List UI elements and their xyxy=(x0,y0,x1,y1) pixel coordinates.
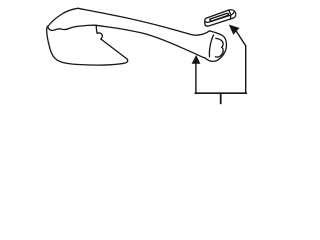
connector clip outer outline xyxy=(205,10,236,26)
arm bottom edge (line B) xyxy=(96,25,205,58)
arrow 1 head (points up at tube) xyxy=(192,55,201,64)
tube end inner edge xyxy=(209,35,213,57)
arrow 2 leader diagonal xyxy=(236,31,245,46)
bracket horizontal line xyxy=(195,92,246,94)
arrow 1 leader vertical xyxy=(195,63,197,93)
arm top edge continuing to tube end xyxy=(78,8,210,35)
connector slot detail xyxy=(210,13,228,21)
tube end outline xyxy=(205,31,227,62)
small bump detail on diagonal xyxy=(97,33,102,39)
arrow 2 head (points up-left at connector) xyxy=(229,25,240,35)
wedge diagonal line of paddle xyxy=(101,39,127,59)
connector right corner edge xyxy=(229,10,231,15)
inner wavy fold line of paddle xyxy=(47,25,96,30)
connector top face lower edge xyxy=(205,12,234,22)
arrow 2 leader vertical xyxy=(245,46,247,93)
paddle outer outline with arm top edge (line A) xyxy=(47,8,128,65)
tube end curled slot detail xyxy=(215,38,223,57)
bracket stem xyxy=(220,93,222,103)
connector front-right corner edge xyxy=(229,15,231,19)
diagonal upper end to junction xyxy=(96,25,97,33)
